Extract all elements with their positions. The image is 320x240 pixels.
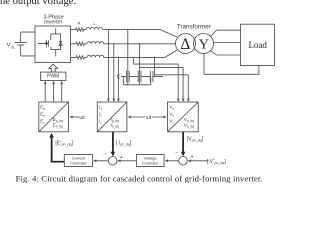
svg-text:Controller: Controller	[70, 160, 88, 165]
svg-text:[ V*pn_dq]: [ V*pn_dq]	[207, 158, 227, 165]
svg-text:[ Ipn_dq]: [ Ipn_dq]	[116, 141, 132, 147]
svg-text:Load: Load	[248, 40, 267, 50]
svg-text:+: +	[191, 155, 194, 161]
svg-text:[Vpn_dq]: [Vpn_dq]	[187, 137, 204, 143]
svg-text:Controller: Controller	[142, 160, 160, 165]
svg-text:Fig. 4: Circuit diagram for ca: Fig. 4: Circuit diagram for cascaded con…	[16, 173, 263, 183]
svg-text:R: R	[78, 21, 81, 26]
svg-text:PWM: PWM	[47, 74, 59, 80]
svg-text:C: C	[117, 74, 121, 80]
svg-text:−: −	[175, 151, 178, 157]
svg-text:Y: Y	[199, 38, 209, 53]
svg-text:−: −	[105, 151, 108, 157]
svg-text:dc: dc	[11, 45, 15, 49]
svg-text:+: +	[120, 155, 123, 161]
svg-text:Inverter: Inverter	[44, 19, 62, 25]
svg-text:ωt: ωt	[79, 115, 85, 121]
svg-text:L: L	[94, 21, 97, 26]
svg-text:[E*pn_dq]: [E*pn_dq]	[55, 140, 73, 147]
svg-text:Δ: Δ	[180, 36, 190, 53]
svg-text:the output voltage.: the output voltage.	[0, 0, 76, 7]
svg-text:Transformer: Transformer	[177, 23, 211, 30]
svg-text:ωt: ωt	[146, 115, 152, 121]
